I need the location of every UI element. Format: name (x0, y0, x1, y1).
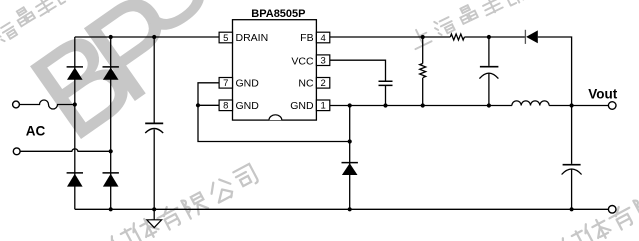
svg-text:GND: GND (236, 100, 260, 112)
svg-text:VCC: VCC (291, 55, 314, 67)
diode D5 freewheel (342, 163, 358, 175)
wire output cap top (571, 106, 573, 164)
diode D6 FB line (525, 30, 537, 44)
wire bulk cap top (153, 37, 155, 123)
node pin8 tie (196, 103, 200, 107)
watermark chinese line top-right (408, 0, 524, 49)
capacitor C-VCC plates (379, 81, 393, 85)
diode D2 bridge top-right (103, 67, 119, 80)
pin 7 box (219, 78, 232, 89)
pin 5 box (219, 32, 232, 43)
wire VCC cap bottom (385, 86, 387, 106)
IC U1 body (233, 20, 317, 120)
terminal AC live (13, 101, 20, 108)
wire FB rail (330, 36, 451, 38)
wire AC live with fuse bump (19, 100, 75, 109)
node rail vcc cap (383, 103, 387, 107)
ground (147, 220, 162, 228)
terminal Vout+ (608, 102, 616, 110)
node switch out (570, 103, 574, 107)
capacitor C-OUT (563, 164, 581, 166)
wire bulk cap bottom (153, 130, 155, 210)
wire diode to corner down (538, 37, 572, 106)
wire FB to diode (464, 36, 525, 38)
node bottom rail gnd (152, 207, 156, 211)
node bottom rail D4 (109, 207, 113, 211)
svg-text:2: 2 (320, 78, 325, 89)
wire pin8 (198, 104, 219, 106)
watermark chinese line bottom-middle (109, 164, 259, 241)
pin 1 box (316, 100, 329, 111)
svg-text:AC: AC (26, 124, 46, 139)
resistor R2 vertical (420, 64, 426, 78)
wire bottom rail (75, 208, 609, 210)
svg-text:DRAIN: DRAIN (236, 32, 269, 44)
node FB divider top (421, 35, 425, 39)
pin 8 box (219, 100, 232, 111)
inductor L1 (512, 101, 549, 106)
wire top rail (75, 36, 219, 38)
wire pin1 rail (330, 105, 512, 107)
node FB cap top (487, 35, 491, 39)
terminal AC neutral (13, 148, 20, 155)
watermark BPS logo (7, 0, 230, 166)
IC notch (269, 115, 282, 120)
wire freewheel column (349, 106, 351, 210)
watermark chinese line bottom-right (560, 191, 639, 241)
node gnd tie (348, 139, 352, 143)
wire AC neutral with hop (20, 149, 111, 151)
wire FB cap top (488, 37, 490, 66)
svg-text:8: 8 (223, 101, 228, 112)
svg-text:1: 1 (320, 101, 325, 112)
svg-text:GND: GND (290, 100, 314, 112)
svg-text:3: 3 (320, 56, 325, 67)
node top rail bulk cap (152, 35, 156, 39)
svg-text:FB: FB (300, 32, 313, 44)
node top rail D2 (109, 35, 113, 39)
svg-text:BPA8505P: BPA8505P (251, 8, 305, 20)
diode D3 bridge bottom-left (67, 173, 83, 187)
wire pin7 (198, 83, 350, 142)
wire inductor to Vout (549, 105, 608, 107)
pin 4 box (316, 32, 329, 43)
node AC live bridge (73, 102, 77, 106)
wire output cap bottom (571, 170, 573, 210)
node rail divider bottom (421, 103, 425, 107)
wire vertical resistor bottom (422, 78, 424, 106)
svg-text:NC: NC (298, 78, 314, 90)
wire VCC (330, 60, 386, 80)
diode D4 bridge bottom-right (103, 173, 119, 187)
node AC neutral bridge (109, 149, 113, 153)
capacitor C-FB (480, 66, 499, 68)
wire bridge left column (74, 37, 76, 209)
resistor R-FB horizontal (450, 34, 464, 40)
watermark chinese line top-left (0, 0, 75, 44)
svg-text:4: 4 (320, 33, 325, 44)
terminal Vout- (608, 206, 616, 214)
wire FB cap bottom (488, 74, 490, 106)
svg-text:7: 7 (223, 78, 228, 89)
svg-text:5: 5 (223, 33, 228, 44)
node bottom rail cout (570, 207, 574, 211)
diode D1 bridge top-left (67, 67, 83, 80)
capacitor C-BULK (145, 123, 163, 133)
pin 3 box (316, 55, 329, 66)
wire bridge right column (110, 37, 112, 209)
svg-text:Vout: Vout (588, 87, 617, 102)
node bottom rail freewheel (348, 207, 352, 211)
svg-text:GND: GND (236, 78, 260, 90)
node rail fb cap bottom (487, 103, 491, 107)
wire vertical resistor top (422, 37, 424, 64)
pin 2 box (316, 78, 329, 89)
wire gnd stub (153, 209, 155, 219)
node rail freewheel (348, 103, 352, 107)
